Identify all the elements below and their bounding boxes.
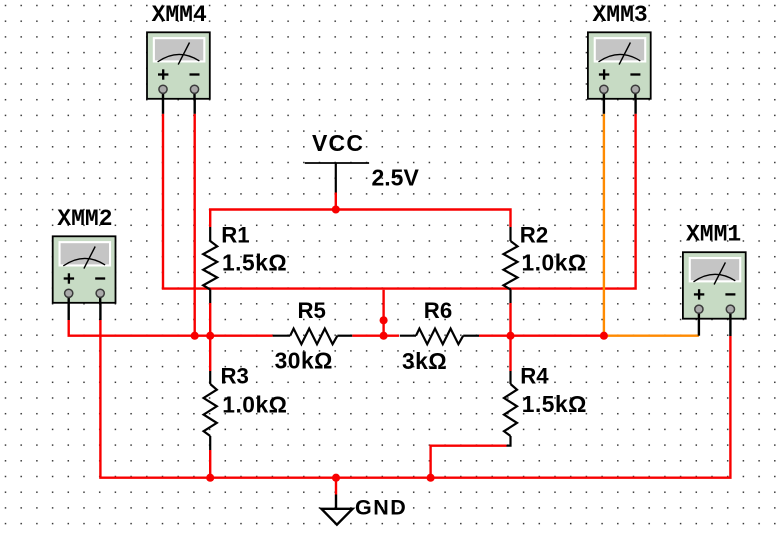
svg-text:GND: GND [355,495,407,519]
wire middle rail from R6 to orange junction [479,335,604,337]
wire orange XMM3 plus to middle rail to XMM1 plus [604,114,699,336]
junction node GND on ground rail [332,474,340,482]
junction node R1/R3 on middle rail [206,332,214,340]
svg-text:VCC: VCC [312,130,364,156]
junction node center tap on middle rail [380,332,388,340]
svg-text:R3: R3 [221,364,249,389]
junction node R4 on ground rail [427,474,435,482]
wire R4 dogleg to ground rail [431,446,507,478]
multimeter XMM3 [588,32,651,99]
wire center tap stub [382,290,384,336]
wire XMM4 minus lead down to middle rail [193,114,195,336]
multimeter XMM4 lead stubs [163,89,195,114]
svg-text:30kΩ: 30kΩ [275,348,333,374]
svg-text:1.5kΩ: 1.5kΩ [522,391,587,417]
resistor R1 [203,223,287,303]
multimeter XMM3 lead stubs [604,89,636,114]
junction node R2/R4 on middle rail [506,332,514,340]
svg-text:1.0kΩ: 1.0kΩ [222,391,287,417]
svg-text:2.5V: 2.5V [372,165,420,191]
svg-text:XMM4: XMM4 [152,2,207,28]
wire top rail from R1 top to R2 top [210,210,510,228]
svg-text:R6: R6 [424,298,452,323]
svg-text:XMM3: XMM3 [592,2,647,28]
svg-text:R2: R2 [520,223,548,248]
svg-text:R1: R1 [221,223,249,248]
svg-text:3kΩ: 3kΩ [402,348,447,374]
svg-text:R4: R4 [520,363,549,388]
resistor R6 [400,298,479,374]
resistor R4 [504,363,587,445]
wire middle rail between R5 and R6 [352,335,399,337]
junction node orange tap on middle rail [600,332,608,340]
wire R4 top red segment [509,336,511,371]
svg-text:XMM1: XMM1 [686,222,741,248]
wire VCC stub [335,193,337,211]
multimeter XMM1 lead stubs [699,309,731,336]
wire middle rail left segment from XMM2 plus to R5 [69,320,273,336]
svg-text:XMM2: XMM2 [57,206,112,232]
wire R1 bottom to middle rail [209,303,211,336]
resistor R3 [204,364,288,450]
multimeter XMM1 [683,252,746,319]
wire R3 top red segment [209,336,211,371]
wire ground rail from XMM2 minus to XMM1 minus [100,320,730,478]
junction node R3 on ground rail [206,474,214,482]
multimeter XMM2 lead stubs [69,293,101,320]
svg-text:R5: R5 [298,298,326,323]
ground GND symbol [321,495,407,525]
junction node at VCC on top rail [332,205,340,213]
multimeter XMM2 [53,236,116,302]
svg-text:1.0kΩ: 1.0kΩ [522,250,587,276]
svg-text:1.5kΩ: 1.5kΩ [222,250,287,276]
wire XMM4 plus lead down to node row, across to XMM3 minus lead [163,114,636,289]
resistor R2 [504,223,587,303]
junction node XMM4 minus on middle rail [191,332,199,340]
resistor R5 [273,298,353,373]
junction node on center tap stub [380,316,388,324]
wire R3 bottom to ground rail [209,450,211,478]
multimeter XMM4 [147,32,210,99]
power VCC symbol [305,130,369,193]
wire R2 bottom to middle rail [509,303,511,336]
wire GND stub [335,478,337,495]
